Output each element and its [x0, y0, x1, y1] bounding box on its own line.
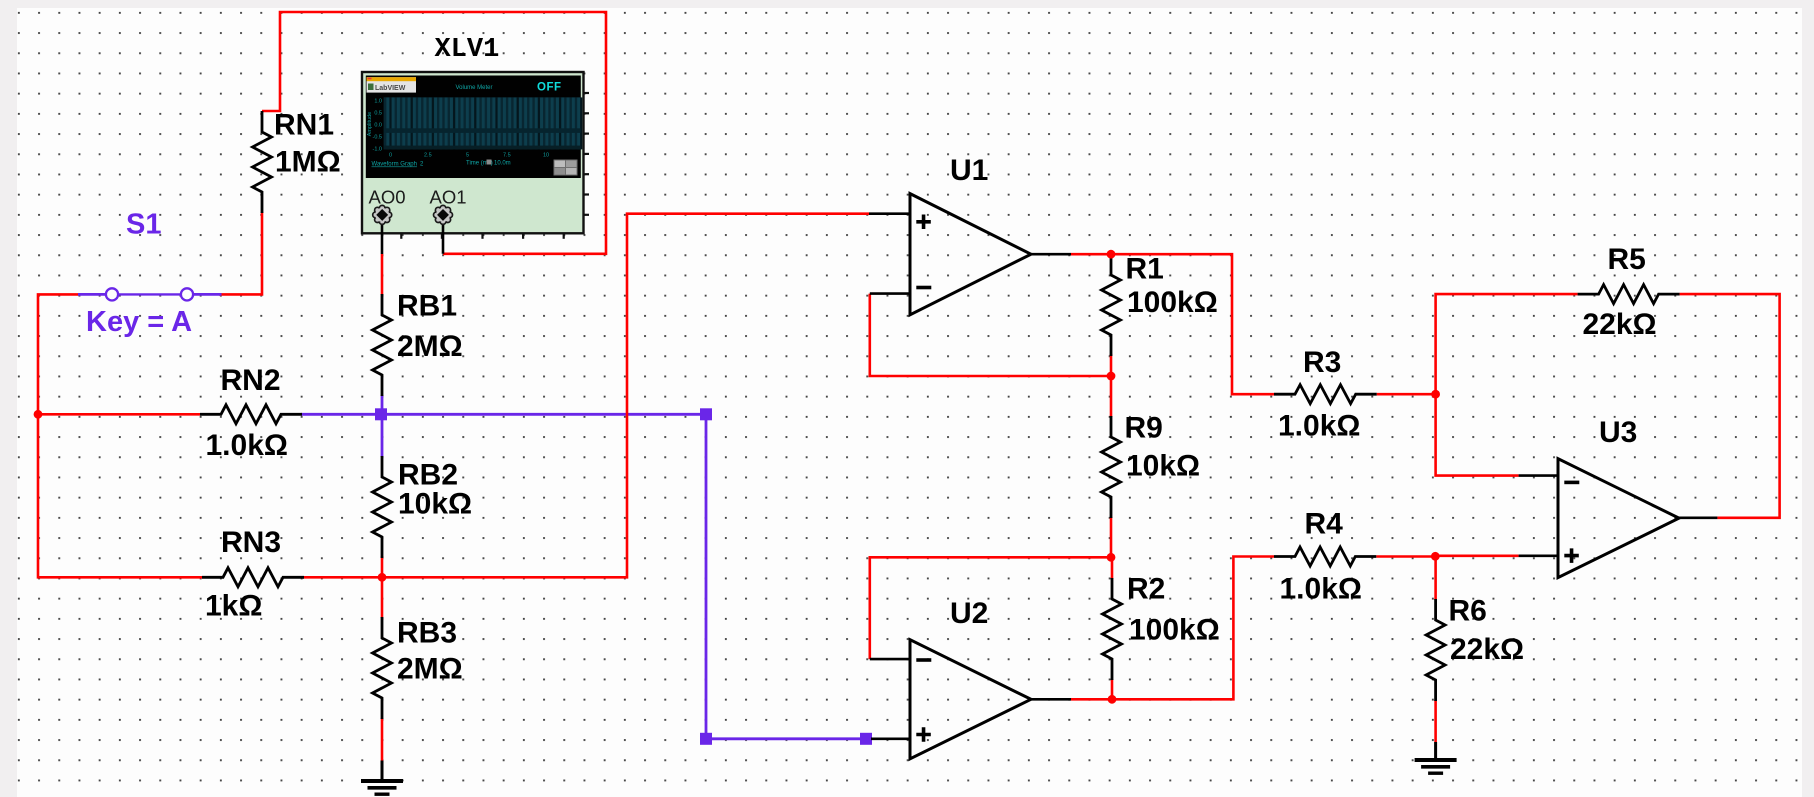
- node A junction: [1431, 390, 1440, 399]
- wire RB2 bottom to RN3 node: [381, 556, 384, 578]
- svg-text:R4: R4: [1305, 508, 1344, 541]
- svg-text:0.0: 0.0: [374, 123, 382, 129]
- wire node A up to R5: [1436, 294, 1578, 394]
- node junction U1 output R1: [1107, 250, 1116, 259]
- wire RN1 bottom to switch S1: [219, 212, 262, 294]
- svg-text:5: 5: [466, 153, 469, 159]
- wire RN3 node to RB3: [381, 577, 384, 618]
- wire AO0 lead: [381, 223, 384, 255]
- wire AO0 to RB1: [381, 254, 384, 295]
- wire RB2 top purple stub: [381, 419, 384, 457]
- wire purple corner node: [700, 408, 712, 420]
- wire RN2 output purple bus: [301, 413, 701, 416]
- resistor R3: [1274, 385, 1377, 404]
- resistor R4: [1274, 547, 1376, 566]
- wire U2 plus input stub: [871, 737, 910, 740]
- svg-text:10kΩ: 10kΩ: [398, 488, 472, 521]
- wire purple bus junction RB: [375, 408, 387, 420]
- wire purple vertical drop: [705, 419, 708, 739]
- svg-text:1kΩ: 1kΩ: [205, 590, 262, 623]
- svg-text:0.5: 0.5: [374, 111, 382, 117]
- op-amp U2: [910, 640, 1031, 759]
- resistor RB1: [373, 294, 392, 396]
- op-amp U1: [910, 194, 1031, 315]
- wire node B down to R6: [1434, 557, 1437, 601]
- wire R6 bottom to ground: [1434, 700, 1437, 742]
- svg-text:10: 10: [543, 153, 549, 159]
- wire U2 output to R4: [1071, 557, 1274, 700]
- svg-text:1.0kΩ: 1.0kΩ: [1280, 573, 1362, 606]
- wire node to R2 top: [1111, 557, 1114, 579]
- wire U1 output to R3: [1071, 254, 1274, 394]
- svg-text:100kΩ: 100kΩ: [1127, 286, 1218, 319]
- svg-text:Key = A: Key = A: [86, 306, 192, 338]
- svg-text:XLV1: XLV1: [435, 35, 500, 65]
- svg-text:1MΩ: 1MΩ: [275, 146, 341, 179]
- node junction U2 output R2: [1108, 695, 1117, 704]
- ground under R6: [1434, 742, 1437, 760]
- svg-text:2MΩ: 2MΩ: [397, 330, 463, 363]
- svg-text:RN3: RN3: [221, 526, 281, 559]
- switch S1 left contact: [106, 288, 118, 300]
- svg-text:7.5: 7.5: [503, 153, 511, 159]
- svg-text:10.0m: 10.0m: [494, 161, 511, 167]
- svg-text:RB3: RB3: [397, 617, 457, 650]
- svg-text:U2: U2: [950, 597, 988, 630]
- wire U1 minus input stub: [870, 292, 910, 295]
- op-amp U3: [1558, 459, 1679, 578]
- svg-text:U3: U3: [1599, 416, 1637, 449]
- node junction R9 bottom: [1107, 553, 1116, 562]
- wire RB1 bottom purple stub: [381, 395, 384, 410]
- wire R3 to node A: [1377, 393, 1436, 396]
- wire purple corner node 2: [700, 733, 712, 745]
- wire U1 minus feedback: [870, 294, 1111, 376]
- resistor R9: [1102, 416, 1121, 518]
- svg-text:R6: R6: [1449, 595, 1487, 628]
- resistor RB3: [373, 617, 392, 719]
- svg-text:RN2: RN2: [221, 364, 281, 397]
- svg-text:OFF: OFF: [537, 82, 562, 94]
- svg-text:RN1: RN1: [274, 109, 334, 142]
- node junction R1 bottom feedback: [1107, 372, 1116, 381]
- wire RN1 top to XLV1 frame: [262, 12, 606, 254]
- wire RB3 bottom to ground: [381, 718, 384, 761]
- instrument XLV1 body: [362, 72, 584, 233]
- svg-text:U1: U1: [950, 154, 988, 187]
- wire U1 plus input stub: [869, 212, 910, 215]
- svg-text:LabVIEW: LabVIEW: [375, 85, 406, 92]
- resistor R2: [1103, 578, 1122, 680]
- svg-text:-1.0: -1.0: [373, 147, 382, 153]
- svg-text:S1: S1: [126, 209, 161, 241]
- resistor R5: [1578, 285, 1680, 304]
- svg-text:1.0kΩ: 1.0kΩ: [206, 429, 288, 462]
- svg-text:R2: R2: [1127, 573, 1165, 606]
- wire R2 bottom to U2 output node: [1111, 679, 1114, 699]
- svg-text:R5: R5: [1608, 243, 1646, 276]
- wire R4 to node B: [1376, 555, 1435, 558]
- svg-text:100kΩ: 100kΩ: [1129, 614, 1220, 647]
- svg-text:R3: R3: [1303, 346, 1341, 379]
- wire switch right purple stub: [194, 293, 222, 296]
- terminal AO0: [386, 212, 392, 218]
- resistor RB2: [373, 456, 392, 558]
- svg-text:2.5: 2.5: [424, 153, 432, 159]
- svg-text:1.0: 1.0: [374, 99, 382, 105]
- resistor RN1: [253, 111, 272, 213]
- node B junction: [1431, 552, 1440, 561]
- wire U2 minus input stub: [870, 658, 910, 661]
- node junction left rail: [34, 410, 43, 419]
- svg-text:1.0kΩ: 1.0kΩ: [1278, 410, 1360, 443]
- resistor R6: [1426, 599, 1445, 701]
- svg-text:R9: R9: [1125, 412, 1163, 445]
- resistor RN3: [202, 568, 304, 587]
- svg-text:10kΩ: 10kΩ: [1126, 450, 1200, 483]
- wire left rail to RN2: [38, 413, 200, 416]
- wire switch left purple stub: [78, 293, 106, 296]
- wire U3 output stub: [1679, 516, 1717, 519]
- svg-text:AO1: AO1: [430, 187, 467, 208]
- svg-text:-0.5: -0.5: [373, 135, 382, 141]
- resistor R1: [1102, 254, 1121, 356]
- svg-text:2MΩ: 2MΩ: [397, 653, 463, 686]
- svg-text:RB1: RB1: [397, 290, 457, 323]
- wire R9 bottom to node: [1110, 517, 1113, 557]
- switch S1 lever: [119, 293, 181, 295]
- wire node A down to U3 minus: [1436, 394, 1519, 475]
- terminal AO1: [447, 212, 453, 218]
- wire node B to U3 plus: [1435, 554, 1518, 557]
- svg-text:Volume Meter: Volume Meter: [455, 85, 492, 91]
- wire switch left to left rail down to RN3: [38, 294, 202, 577]
- ground under RB3: [381, 761, 384, 782]
- svg-text:R1: R1: [1126, 253, 1164, 286]
- svg-text:Waveform Graph: Waveform Graph: [372, 162, 417, 168]
- wire purple end node: [860, 733, 872, 745]
- wire R1 bottom to feedback node: [1110, 354, 1113, 376]
- wire U1 output stub: [1031, 253, 1071, 256]
- svg-text:Amplitude: Amplitude: [367, 112, 373, 136]
- wire purple to U2 plus: [711, 737, 861, 740]
- svg-text:0: 0: [389, 153, 392, 159]
- wire U3 plus input stub: [1519, 554, 1558, 557]
- wire U2 output stub: [1031, 698, 1071, 701]
- wire RN3 output to U1 plus: [303, 214, 869, 578]
- svg-text:22kΩ: 22kΩ: [1450, 633, 1524, 666]
- wire AO1 lead: [442, 223, 445, 254]
- wire feedback node to R9: [1110, 376, 1113, 417]
- wire R5 to U3 output: [1680, 294, 1780, 518]
- wire U2 minus feedback: [870, 557, 1111, 659]
- resistor RN2: [200, 405, 302, 424]
- switch S1 right contact: [181, 288, 193, 300]
- node junction RN3 RB2 RB3: [378, 573, 387, 582]
- svg-text:AO0: AO0: [369, 187, 406, 208]
- wire U3 minus input stub: [1519, 474, 1558, 477]
- svg-text:22kΩ: 22kΩ: [1583, 308, 1657, 341]
